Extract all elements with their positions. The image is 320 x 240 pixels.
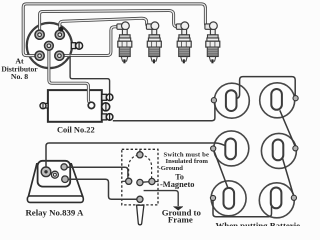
battery B5 outer circle: [211, 181, 246, 216]
label To Magneto: [160, 172, 194, 189]
switch blade center to right contact: [141, 181, 151, 184]
wire battery B2 center to B4 edge terminal (diagonal): [280, 110, 295, 146]
label Switch must be Insulated from Ground: [159, 151, 210, 172]
battery B6 carbon electrode stadium: [271, 188, 282, 209]
wire branch from plug1 run down to coil top-right post: [70, 56, 110, 94]
svg-text:Coil No.22: Coil No.22: [57, 125, 95, 134]
battery B6 outer circle: [259, 183, 294, 218]
switch dashed enclosure: [122, 149, 158, 205]
wire battery B5 edge terminal to B6 center (bottom U): [213, 201, 272, 217]
wire battery B4 center to B6 edge terminal (diagonal): [281, 155, 293, 196]
relay trapezoid base: [29, 164, 83, 196]
spark plug 2: [146, 22, 161, 63]
battery B6 edge terminal: [291, 195, 296, 200]
coil No.22 body: [48, 90, 102, 122]
distributor housing circle: [27, 23, 72, 68]
distributor tower lower-right: [55, 51, 64, 60]
battery B1 outer circle: [214, 83, 249, 118]
svg-text:Frame: Frame: [168, 215, 193, 225]
svg-text:-Magneto: -Magneto: [160, 180, 194, 189]
battery B1 edge terminal: [211, 98, 216, 103]
wire distributor center tower to coil terminal: [49, 48, 90, 103]
wire distributor upper-right tower to plug 2: [60, 18, 153, 33]
svg-text:Relay No.839 A: Relay No.839 A: [25, 208, 84, 218]
wire relay upper-right terminal to switch left contact: [68, 167, 128, 178]
ground symbol arrow to frame: [173, 207, 183, 211]
coil inner terminal: [88, 102, 94, 108]
switch dashed throw arc: [129, 155, 152, 181]
switch lever handle: [137, 205, 144, 225]
relay upper-right terminal: [61, 164, 67, 170]
wire battery B3 edge terminal to B5 center (diagonal): [214, 151, 229, 191]
battery B3 carbon electrode stadium: [225, 139, 236, 160]
wire distributor lower-left tower to plug 4 (outer top run): [23, 4, 212, 56]
battery B2 edge terminal: [293, 96, 298, 101]
battery B2 carbon electrode stadium: [271, 89, 282, 110]
distributor center tower: [45, 41, 54, 50]
battery B5 edge terminal: [210, 195, 215, 200]
label At Distributor No. 8: [1, 56, 38, 81]
spark plug 3: [176, 22, 191, 63]
relay lower-right terminal: [62, 176, 69, 183]
battery B4 outer circle: [261, 133, 296, 168]
label Ground to Frame: [162, 208, 202, 225]
battery B1 carbon electrode stadium: [226, 90, 237, 111]
coil top-right post: [102, 94, 113, 101]
svg-text:-Ground: -Ground: [159, 165, 184, 172]
switch bottom contact: [137, 196, 143, 202]
switch left contact: [122, 178, 132, 184]
distributor side post: [71, 42, 82, 49]
battery B4 edge terminal: [293, 146, 298, 151]
switch right contact (to magneto): [149, 178, 159, 184]
spark plug 1: [117, 22, 132, 63]
coil middle-right post: [102, 103, 110, 111]
switch center contact: [137, 179, 143, 185]
wire relay big terminal to battery B3 center electrode: [46, 143, 227, 169]
wire relay lower-right terminal to switch bottom contact: [69, 179, 137, 199]
relay big terminal: [41, 167, 51, 177]
svg-text:When putting Batteries: When putting Batteries: [216, 220, 301, 226]
spark plug 4: [205, 22, 220, 63]
wire distributor lower-right tower to plug 1: [61, 27, 119, 56]
battery B4 carbon electrode stadium: [273, 140, 284, 161]
battery B2 outer circle: [260, 83, 295, 118]
wire battery B1 center to B2 edge terminal (top bridge): [237, 77, 295, 99]
wire distributor upper-left tower to plug 3: [40, 10, 180, 33]
relay terminal plate: [38, 161, 71, 187]
distributor tower upper-left: [35, 30, 44, 39]
wire coil bottom-right post to battery B1 edge terminal: [113, 103, 215, 121]
coil bottom-right post: [102, 114, 113, 121]
wire switch bottom contact to ground symbol: [144, 191, 179, 206]
svg-text:No. 8: No. 8: [11, 72, 28, 81]
battery B3 outer circle: [214, 131, 249, 166]
coil left post: [40, 103, 48, 109]
distributor tower upper-right: [55, 30, 64, 39]
relay center terminal: [51, 171, 58, 178]
distributor tower lower-left: [35, 51, 44, 60]
switch top contact: [137, 149, 143, 158]
battery B5 carbon electrode stadium: [224, 188, 235, 209]
svg-text:Insulated from: Insulated from: [166, 158, 209, 165]
distributor timing dot: [59, 27, 64, 32]
relay foot bar: [27, 196, 83, 202]
battery B3 edge terminal: [211, 146, 216, 151]
